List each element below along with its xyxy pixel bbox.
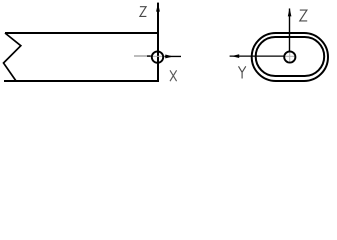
label Z (side view) — [140, 7, 147, 17]
cross-section view: inner obround — [256, 37, 325, 76]
X axis shaft — [165, 55, 182, 57]
label Y — [239, 66, 246, 78]
beam side view: bottom edge — [4, 80, 159, 82]
beam side view: top edge — [5, 32, 159, 34]
faint horizontal centerline inside origin circle (cross-section) — [285, 55, 295, 57]
Y axis arrowhead — [231, 54, 239, 58]
origin node circle (cross-section) — [284, 51, 295, 62]
Z axis line (cross-section) — [289, 9, 291, 52]
beam side view: right edge / Z axis line — [157, 3, 159, 82]
beam side view: break line (zigzag left end) — [4, 33, 21, 81]
label X — [170, 70, 177, 81]
centerline black dash segment — [147, 55, 151, 57]
cross-section view: outer obround — [252, 33, 328, 81]
faint vertical centerline inside origin circle (cross-section) — [289, 52, 291, 62]
label Z (cross-section) — [300, 10, 307, 21]
origin node circle (side view) — [152, 51, 163, 62]
Y axis shaft / horizontal centerline — [230, 55, 284, 57]
Z axis arrowhead (cross-section) — [288, 8, 292, 16]
X axis arrowhead — [165, 55, 173, 59]
Z axis arrowhead (side view) — [156, 3, 160, 12]
faint centerline inside origin circle (side view) — [153, 55, 163, 57]
horizontal centerline (gray dash) left of origin — [134, 55, 151, 57]
